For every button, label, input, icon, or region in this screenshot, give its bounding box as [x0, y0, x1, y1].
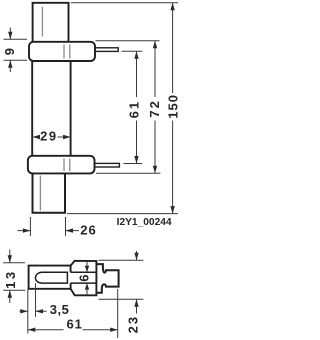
collar with chamfers	[71, 261, 97, 296]
top cap section	[33, 3, 69, 42]
dimension 26	[18, 222, 97, 237]
dimension 3,5	[20, 283, 70, 333]
svg-text:61: 61	[126, 100, 141, 118]
clamp jaw outline	[97, 264, 119, 293]
svg-text:6: 6	[76, 273, 91, 281]
extension line top for 72	[96, 40, 160, 42]
channel top line	[71, 271, 97, 273]
upper terminal pin	[95, 48, 118, 52]
lower clamp band	[28, 156, 95, 174]
lower terminal pin	[95, 163, 120, 167]
upper band inner line b	[69, 45, 71, 59]
lower band inner line a	[63, 159, 65, 172]
dimension 61 bottom	[28, 289, 118, 338]
dimension 23	[99, 251, 144, 333]
svg-text:23: 23	[126, 315, 141, 333]
extension line top for 9	[4, 38, 28, 40]
middle section right edge	[70, 61, 72, 156]
extension line bottom for 72	[96, 172, 160, 174]
svg-text:3,5: 3,5	[50, 302, 70, 317]
svg-text:150: 150	[165, 94, 180, 119]
svg-text:I2Y1_00244: I2Y1_00244	[117, 217, 172, 228]
dimension 6	[76, 262, 91, 295]
dimension 29	[33, 128, 71, 143]
svg-text:13: 13	[3, 269, 18, 288]
keyhole slot	[35, 272, 67, 283]
extension line top for 61	[122, 50, 143, 52]
channel bottom line	[71, 282, 97, 284]
dimension 13	[3, 250, 25, 304]
upper band inner line a	[63, 45, 65, 59]
svg-text:72: 72	[147, 99, 162, 117]
dimension 72 vertical	[147, 41, 162, 174]
upper clamp band	[29, 42, 95, 61]
dimension 9	[2, 28, 17, 73]
extension line bottom for 9	[4, 59, 28, 61]
svg-text:9: 9	[2, 47, 17, 55]
bottom cap highlight line	[39, 176, 41, 211]
extension line top for 150	[71, 2, 178, 4]
extension line right for 26	[65, 217, 67, 236]
bottom cap section	[33, 173, 66, 212]
top cap highlight line	[41, 7, 43, 37]
svg-text:61: 61	[66, 316, 82, 331]
extension line left for 26	[29, 217, 31, 236]
dimension 61 vertical	[126, 51, 141, 163]
dimension 150 vertical	[165, 3, 180, 214]
middle section left edge	[31, 61, 33, 156]
bracket body plate	[29, 266, 71, 289]
svg-text:26: 26	[80, 222, 96, 237]
extension line bottom for 150	[67, 213, 178, 215]
extension line bottom for 61	[124, 163, 143, 165]
lower band inner line b	[69, 159, 71, 172]
svg-text:29: 29	[40, 128, 57, 143]
